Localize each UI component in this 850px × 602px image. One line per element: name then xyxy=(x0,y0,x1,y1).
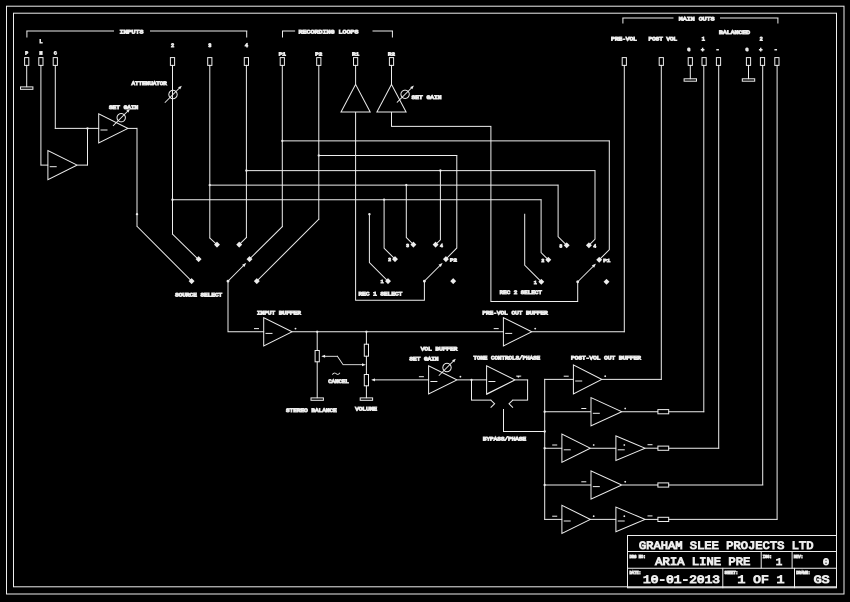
svg-text:-: - xyxy=(774,46,777,53)
svg-text:+: + xyxy=(759,48,762,54)
svg-text:SET GAIN: SET GAIN xyxy=(409,356,438,362)
svg-text:POST VOL: POST VOL xyxy=(649,36,678,42)
svg-text:P2: P2 xyxy=(450,258,457,264)
svg-text:RECORDING LOOPS: RECORDING LOOPS xyxy=(299,28,359,35)
svg-text:-: - xyxy=(716,46,719,53)
svg-text:PRE-VOL OUT BUFFER: PRE-VOL OUT BUFFER xyxy=(482,310,548,316)
svg-text:L: L xyxy=(39,39,42,45)
svg-text:GS: GS xyxy=(814,575,830,587)
svg-text:ARIA LINE PRE: ARIA LINE PRE xyxy=(655,557,751,569)
svg-text:SET GAIN: SET GAIN xyxy=(412,95,442,101)
svg-text:VOL BUFFER: VOL BUFFER xyxy=(421,346,459,352)
svg-text:4: 4 xyxy=(440,243,443,249)
svg-text:DATE:: DATE: xyxy=(630,572,642,576)
svg-text:2: 2 xyxy=(760,36,763,42)
svg-text:BALANCED: BALANCED xyxy=(719,30,750,36)
svg-text:0: 0 xyxy=(823,557,829,569)
svg-text:3: 3 xyxy=(406,243,409,249)
svg-text:STEREO BALANCE: STEREO BALANCE xyxy=(286,408,337,414)
svg-text:1: 1 xyxy=(534,280,537,286)
svg-text:REC 2 SELECT: REC 2 SELECT xyxy=(500,290,543,296)
svg-text:SHEET:: SHEET: xyxy=(725,572,739,576)
svg-text:ATTENUATOR: ATTENUATOR xyxy=(132,81,167,87)
svg-text:INPUTS: INPUTS xyxy=(120,28,144,35)
svg-text:R1: R1 xyxy=(352,52,359,58)
svg-text:P2: P2 xyxy=(315,52,322,58)
svg-text:SET GAIN: SET GAIN xyxy=(109,105,138,111)
svg-text:P1: P1 xyxy=(279,52,286,58)
svg-text:1: 1 xyxy=(381,279,384,285)
svg-text:TONE CONTROLS/PHASE: TONE CONTROLS/PHASE xyxy=(473,356,540,362)
svg-text:P: P xyxy=(25,51,28,57)
svg-text:P1: P1 xyxy=(603,258,610,264)
svg-text:REV:: REV: xyxy=(794,556,804,560)
svg-text:+: + xyxy=(701,48,704,54)
svg-text:2: 2 xyxy=(171,43,174,49)
svg-text:MAIN OUTS: MAIN OUTS xyxy=(679,15,715,22)
svg-text:2: 2 xyxy=(388,257,391,263)
svg-text:VOLUME: VOLUME xyxy=(355,407,377,413)
svg-text:REC 1 SELECT: REC 1 SELECT xyxy=(359,292,404,298)
svg-text:INPUT BUFFER: INPUT BUFFER xyxy=(257,311,302,317)
svg-text:G: G xyxy=(687,47,690,53)
svg-text:DRAWN:: DRAWN: xyxy=(796,572,810,576)
svg-text:C: C xyxy=(54,51,57,57)
svg-text:BYPASS/PHASE: BYPASS/PHASE xyxy=(483,437,526,443)
svg-text:G: G xyxy=(746,47,749,53)
svg-text:3: 3 xyxy=(559,244,562,250)
svg-text:ISS:: ISS: xyxy=(763,556,772,560)
svg-text:2: 2 xyxy=(541,258,544,264)
svg-text:CANCEL: CANCEL xyxy=(328,379,349,385)
svg-text:3: 3 xyxy=(208,43,211,49)
svg-text:PRE-VOL: PRE-VOL xyxy=(611,36,637,42)
svg-text:DRG NO:: DRG NO: xyxy=(630,556,646,560)
svg-text:M: M xyxy=(39,51,42,57)
svg-text:10-01-2013: 10-01-2013 xyxy=(643,575,720,587)
svg-text:GRAHAM SLEE PROJECTS LTD: GRAHAM SLEE PROJECTS LTD xyxy=(639,541,814,553)
svg-text:4: 4 xyxy=(593,244,596,250)
svg-text:R2: R2 xyxy=(388,52,395,58)
svg-text:4: 4 xyxy=(245,43,248,49)
svg-text:SOURCE SELECT: SOURCE SELECT xyxy=(175,292,223,298)
svg-text:1 OF 1: 1 OF 1 xyxy=(738,575,785,587)
svg-text:1: 1 xyxy=(702,36,705,42)
svg-text:1: 1 xyxy=(776,557,782,569)
svg-text:POST-VOL OUT BUFFER: POST-VOL OUT BUFFER xyxy=(571,356,642,362)
